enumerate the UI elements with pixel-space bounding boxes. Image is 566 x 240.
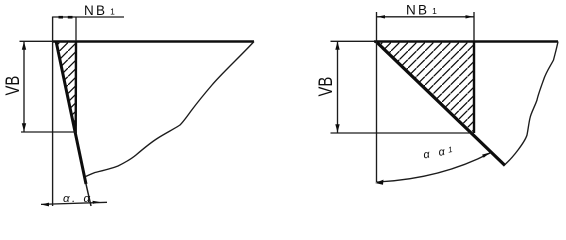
vertical reference line (right view) bbox=[376, 12, 378, 182]
label alpha alpha1 (right view) bbox=[422, 144, 456, 161]
break line wavy (left view) bbox=[86, 42, 255, 177]
dimension VB line (right view) bbox=[335, 42, 339, 133]
dimension NB1 line (left view) bbox=[53, 16, 124, 18]
svg-text:VB: VB bbox=[2, 76, 23, 96]
label alpha alpha (left view) bbox=[63, 193, 93, 205]
hatched wear sliver (left view) bbox=[56, 41, 76, 132]
label NB1 (left view) bbox=[84, 3, 117, 18]
label VB (right view) bbox=[315, 77, 336, 97]
top extension line (right view, VB datum) bbox=[331, 40, 375, 42]
label NB1 (right view) bbox=[406, 3, 439, 18]
top edge (tool face, right view) bbox=[374, 40, 558, 43]
svg-text:VB: VB bbox=[315, 77, 336, 97]
svg-text:α. α: α. α bbox=[63, 193, 93, 205]
top edge (tool face, left view) bbox=[53, 40, 254, 43]
label VB (left view) bbox=[2, 76, 23, 96]
worn edge hypotenuse thick (right view) bbox=[376, 41, 506, 166]
dimension NB1 line (right view) bbox=[377, 15, 475, 18]
dimension VB line (left view) bbox=[22, 42, 26, 132]
angle baseline (left view) bbox=[41, 201, 107, 207]
top extension line (left view, VB datum) bbox=[20, 40, 54, 42]
original flank line (right view) bbox=[473, 12, 475, 133]
worn flank edge thick (left view) bbox=[56, 41, 91, 206]
original flank line (left view) bbox=[75, 17, 77, 134]
bottom extension line VB (left view) bbox=[21, 131, 76, 133]
hatched wear triangle (right view) bbox=[376, 41, 474, 133]
vertical reference line (left view) bbox=[52, 17, 54, 207]
bottom extension line VB (right view) bbox=[331, 132, 475, 134]
break line wavy (right view) bbox=[505, 42, 558, 165]
angle arc (right view) bbox=[375, 153, 490, 185]
